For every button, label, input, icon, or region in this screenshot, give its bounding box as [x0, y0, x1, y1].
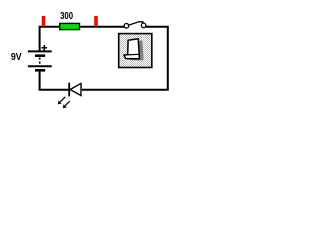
rocker fold line [124, 53, 139, 56]
LED arrow 1 [60, 97, 66, 103]
battery dotted link [39, 58, 41, 65]
LED D1 [58, 83, 81, 109]
switch SW1 contact right [141, 23, 146, 28]
battery B1 9V [28, 45, 52, 70]
battery cell2 short plate [35, 69, 45, 72]
svg-text:300: 300 [60, 11, 73, 22]
battery plus sign [42, 45, 48, 51]
wire battery negative to LED (bottom-left) [40, 72, 69, 90]
wire switch to LED (top-right and right side) [82, 27, 168, 90]
switch SW1 contact left [124, 24, 129, 29]
current indicator red tick 2 [94, 16, 98, 26]
rocker shadow [128, 40, 143, 60]
battery cell1 long plate [28, 50, 52, 52]
battery cell2 long plate [28, 65, 52, 67]
LED arrow 2 [64, 101, 69, 106]
svg-text:9V: 9V [11, 52, 22, 63]
wire battery positive to resistor (top-left corner) [40, 27, 60, 51]
switch picture box [119, 34, 152, 68]
rocker body [124, 39, 139, 59]
battery cell1 short plate [35, 54, 45, 57]
LED triangle [70, 83, 81, 95]
current indicator red tick 1 [42, 16, 46, 26]
wire resistor to switch [80, 26, 124, 28]
resistor R1 (300 ohm) [60, 23, 80, 29]
LED cathode bar [68, 83, 70, 97]
switch SW1 lever [128, 22, 143, 26]
